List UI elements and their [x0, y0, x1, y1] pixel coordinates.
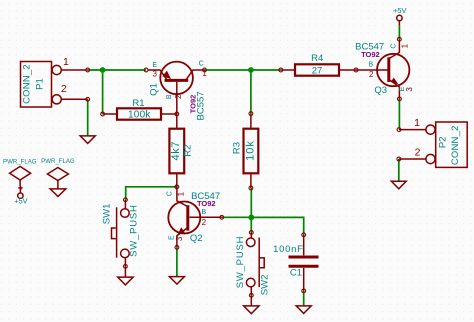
wire Q3 emitter to P2 pin1: [398, 99, 400, 130]
svg-text:R2: R2: [183, 145, 194, 157]
ground below SW2: [244, 306, 259, 314]
svg-text:CONN_2: CONN_2: [21, 64, 32, 104]
resistor R1: [101, 98, 177, 121]
svg-text:1: 1: [414, 117, 420, 129]
svg-text:R3: R3: [232, 142, 243, 154]
switch SW2: [235, 231, 270, 306]
svg-text:3: 3: [152, 69, 157, 78]
power +5V top: [393, 6, 406, 25]
junction A: [100, 67, 106, 73]
power flag 1: [3, 158, 37, 186]
power +5V bottom: [14, 186, 27, 206]
switch SW1: [101, 198, 139, 277]
svg-text:SW_PUSH: SW_PUSH: [128, 204, 139, 257]
ground below power flag 2: [50, 189, 66, 197]
transistor Q1 BC557: [144, 61, 207, 121]
ground below P1: [80, 136, 95, 144]
svg-text:+5V: +5V: [393, 6, 406, 15]
svg-text:100k: 100k: [128, 110, 151, 121]
connector P1: [21, 56, 90, 107]
ground below C1: [296, 306, 311, 314]
wire Q1 collector to R4: [204, 69, 280, 71]
svg-text:SW_PUSH: SW_PUSH: [235, 236, 246, 289]
wire SW1 to Q2 collector node: [126, 187, 177, 200]
transistor Q3 BC547: [355, 37, 414, 101]
svg-text:B: B: [201, 209, 206, 216]
wire P1 pin1 to Q1 emitter: [88, 69, 146, 71]
wire Q2 base to junction C: [222, 216, 252, 218]
ground below P2: [391, 181, 406, 189]
svg-text:Q2: Q2: [190, 233, 203, 244]
junction B: [248, 67, 254, 73]
svg-text:E: E: [152, 62, 157, 69]
svg-text:CONN_2: CONN_2: [450, 125, 461, 165]
svg-text:2: 2: [202, 218, 207, 227]
svg-text:Q1: Q1: [148, 83, 159, 96]
svg-text:100nF: 100nF: [273, 244, 303, 255]
svg-text:2: 2: [415, 147, 421, 159]
svg-text:1: 1: [202, 69, 207, 78]
svg-text:3: 3: [405, 87, 414, 92]
resistor R4: [279, 53, 358, 76]
svg-text:C1: C1: [290, 267, 302, 278]
svg-text:1: 1: [63, 56, 69, 68]
svg-text:2: 2: [61, 83, 67, 95]
svg-text:C: C: [199, 61, 204, 68]
svg-text:P1: P1: [34, 78, 45, 90]
wire +5V to Q3 collector: [398, 25, 400, 39]
svg-text:1: 1: [177, 191, 186, 196]
svg-text:R1: R1: [132, 98, 144, 109]
svg-text:4k7: 4k7: [170, 141, 182, 161]
junction C: [248, 215, 254, 221]
svg-text:C: C: [166, 191, 173, 196]
wire P2 pin2 to ground: [398, 159, 400, 181]
wire P1 pin2 to ground: [87, 99, 89, 136]
wire junction A down to R1: [102, 70, 104, 114]
svg-text:1: 1: [400, 43, 409, 48]
transistor Q2 BC547: [166, 187, 223, 249]
wire junction C to C1: [251, 217, 303, 234]
svg-text:27: 27: [312, 65, 323, 76]
wire junction C down to SW2: [250, 217, 252, 232]
resistor R2: [169, 112, 193, 189]
svg-text:10k: 10k: [245, 140, 257, 161]
svg-text:P2: P2: [438, 136, 449, 148]
connector P2: [397, 117, 467, 167]
wire junction B down to R3: [250, 70, 252, 114]
svg-text:C: C: [391, 44, 398, 49]
ground below SW1: [118, 277, 133, 285]
svg-text:3: 3: [175, 236, 184, 241]
power flag 2: [41, 158, 75, 189]
svg-text:2: 2: [174, 94, 183, 99]
svg-text:2: 2: [369, 70, 374, 79]
svg-text:SW2: SW2: [260, 275, 271, 296]
svg-text:B: B: [368, 62, 373, 69]
svg-text:SW1: SW1: [101, 204, 112, 225]
ground below Q2: [169, 277, 184, 285]
svg-text:BC557: BC557: [196, 91, 207, 120]
svg-text:TO92: TO92: [361, 50, 380, 59]
wire R3 to junction C: [250, 188, 252, 217]
svg-text:B: B: [166, 94, 173, 99]
svg-text:Q3: Q3: [374, 85, 387, 96]
capacitor C1: [273, 233, 318, 293]
svg-text:TO92: TO92: [197, 199, 216, 208]
wire Q2 emitter to ground: [176, 247, 178, 276]
svg-text:R4: R4: [311, 53, 323, 64]
wire C1 to ground: [303, 291, 305, 306]
svg-text:PWR_FLAG: PWR_FLAG: [3, 158, 37, 165]
svg-text:+5V: +5V: [14, 196, 27, 205]
svg-text:PWR_FLAG: PWR_FLAG: [41, 158, 75, 165]
resistor R3: [232, 112, 259, 190]
